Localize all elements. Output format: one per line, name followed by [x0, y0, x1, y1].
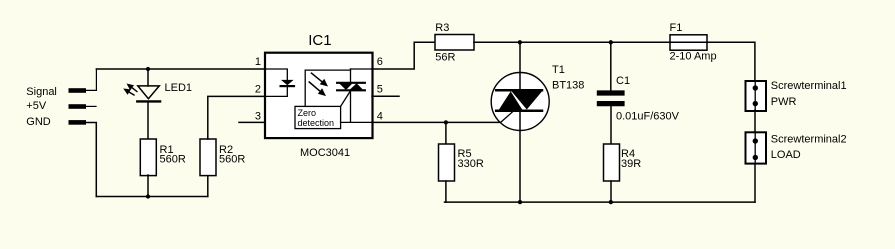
svg-text:T1: T1 [552, 64, 565, 76]
wire IC internal LED cathode to pin2 [265, 87, 287, 97]
node junction triac MT2 / top rail [518, 40, 522, 44]
internal triac bottom bar [337, 89, 365, 91]
wire Signal to top rail [86, 69, 96, 90]
wire terminal2 to bottom rail [754, 164, 756, 203]
diode internal LED of IC1 [281, 80, 294, 85]
screw terminal 1 box [746, 81, 767, 111]
wire R3 to triac junction [474, 41, 520, 43]
svg-text:2: 2 [255, 84, 261, 96]
resistor R3 [435, 35, 474, 51]
node junction LED anode [146, 67, 150, 71]
wire terminal1 internal [754, 81, 756, 111]
svg-text:GND: GND [26, 116, 51, 128]
wire F1 to screw terminal 1 [707, 42, 755, 80]
wire IC pin 3 stub [239, 121, 265, 123]
node junction gate / R5 [444, 120, 448, 124]
wire gate horizontal [446, 121, 501, 123]
resistor R4 [604, 144, 620, 181]
svg-text:detection: detection [298, 118, 335, 128]
svg-text:0.01uF/630V: 0.01uF/630V [616, 110, 680, 122]
svg-text:Signal: Signal [26, 86, 57, 98]
wire pin 4 to gate junction [372, 121, 446, 123]
wire bottom-left rail [96, 196, 208, 198]
wire pin 6 to R3 [372, 42, 435, 69]
wire gate diagonal inside T1 [501, 112, 513, 123]
wire terminal2 internal [754, 132, 756, 163]
wire IC internal pin 6 [351, 68, 373, 70]
internal triac left triangle [339, 83, 352, 90]
internal triac top bar [337, 82, 365, 84]
screw terminal 1 pins [753, 85, 758, 90]
LED LED1 emission arrow 2 [123, 89, 134, 96]
wire GND down to bottom rail [86, 123, 96, 197]
svg-text:PWR: PWR [771, 96, 797, 108]
svg-text:3: 3 [255, 110, 261, 122]
LED LED1 triangle [138, 86, 160, 99]
internal triac lead (pin6 column) [350, 69, 352, 122]
capacitor C1 plate 1 [599, 90, 622, 95]
wire top rail to F1 [520, 41, 669, 43]
wire R2 to IC pin 2 [208, 96, 265, 139]
optocoupler IC1 MOC3041 body [265, 53, 373, 138]
wire IC internal pin1 to LED anode [265, 69, 287, 80]
svg-text:560R: 560R [160, 154, 186, 166]
screw terminal 2 pins [753, 138, 758, 143]
svg-text:BT138: BT138 [552, 80, 584, 92]
triac T1 body circle [491, 73, 549, 131]
svg-text:1: 1 [255, 56, 261, 68]
svg-text:Zero: Zero [298, 108, 317, 118]
resistor R5 [439, 144, 455, 181]
wire triac MT2 lead [519, 42, 521, 89]
triac T1 top bar [496, 89, 542, 92]
wire top-left rail to IC pin 1 [96, 68, 265, 70]
svg-text:56R: 56R [435, 52, 455, 64]
svg-text:F1: F1 [670, 22, 683, 34]
triac T1 left triangle (up) [499, 91, 522, 109]
zero detection box [295, 106, 341, 128]
svg-text:LED1: LED1 [165, 82, 193, 94]
internal triac right triangle [350, 83, 363, 90]
svg-text:2-10 Amp: 2-10 Amp [670, 51, 717, 63]
svg-text:LOAD: LOAD [771, 149, 801, 161]
fuse F1 [670, 35, 707, 50]
wire LED anode [147, 69, 149, 86]
svg-text:+5V: +5V [26, 100, 47, 112]
node junction C1 top [609, 40, 613, 44]
svg-text:Screwterminal1: Screwterminal1 [771, 80, 847, 92]
wire C1 top lead [610, 42, 612, 90]
svg-text:Screwterminal2: Screwterminal2 [771, 134, 847, 146]
wire R5 top [445, 122, 447, 144]
LED LED1 emission arrow 1 [127, 84, 137, 92]
triac T1 bottom bar [496, 109, 542, 112]
svg-text:IC1: IC1 [308, 32, 331, 49]
svg-text:330R: 330R [458, 158, 484, 170]
wire triac MT1 lead down [519, 112, 521, 203]
svg-text:560R: 560R [219, 154, 245, 166]
wire +5V stub [86, 105, 96, 107]
wire R1 to bottom rail [147, 175, 149, 197]
wire LED cathode to R1 [147, 103, 149, 139]
wire IC internal pin 4 [341, 121, 372, 123]
detector sub-box of IC1 [305, 70, 350, 106]
svg-text:C1: C1 [616, 75, 630, 87]
triac T1 right triangle (down) [512, 91, 542, 109]
node junction R4 bottom [609, 200, 613, 204]
node junction R1 bottom [146, 194, 150, 198]
screw terminal 2 box [746, 132, 767, 163]
resistor R2 [200, 139, 216, 176]
svg-text:5: 5 [377, 83, 383, 95]
svg-text:39R: 39R [621, 158, 641, 170]
svg-text:MOC3041: MOC3041 [300, 147, 350, 159]
light arrow 2 inside IC1 [309, 82, 326, 96]
connector pad +5V [69, 104, 87, 109]
light arrow 1 inside IC1 [312, 73, 329, 86]
svg-text:6: 6 [377, 56, 383, 68]
internal gate diagonal to zero detection [341, 91, 351, 107]
wire R2 bottom [207, 175, 209, 197]
resistor R1 [140, 139, 156, 176]
svg-text:4: 4 [377, 110, 383, 122]
wire pin 5 stub [372, 95, 399, 97]
connector pad Signal [69, 88, 87, 93]
capacitor C1 plate 2 [599, 101, 622, 106]
LED LED1 cathode bar [137, 100, 160, 102]
node junction triac MT1 bottom [518, 200, 522, 204]
connector pad GND [69, 120, 87, 125]
wire R5 to bottom rail [445, 181, 447, 202]
wire R4 to bottom rail [610, 181, 612, 202]
wire C1 to R4 [610, 106, 612, 144]
wire between terminals [754, 110, 756, 133]
wire bottom-right rail [445, 201, 756, 203]
svg-text:R3: R3 [435, 22, 449, 34]
